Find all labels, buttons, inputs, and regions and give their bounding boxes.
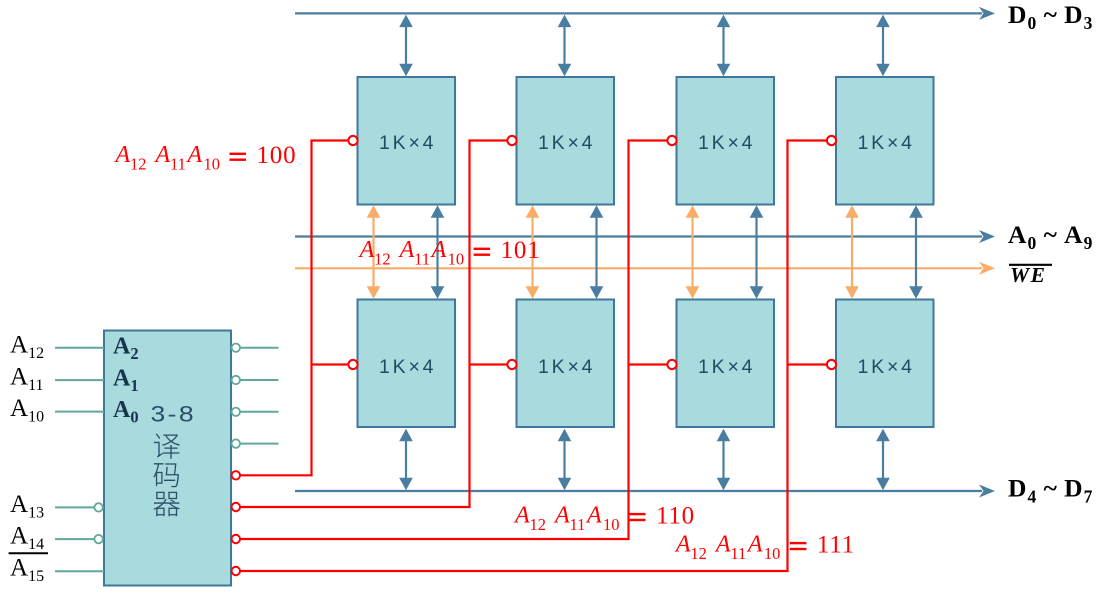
svg-text:WE: WE bbox=[1010, 263, 1046, 287]
svg-text:1K×4: 1K×4 bbox=[858, 356, 915, 378]
svg-text:1K×4: 1K×4 bbox=[858, 132, 915, 154]
svg-text:1K×4: 1K×4 bbox=[538, 132, 595, 154]
svg-text:1K×4: 1K×4 bbox=[379, 356, 436, 378]
svg-text:3-8: 3-8 bbox=[151, 402, 196, 427]
svg-text:A0 ~ A9: A0 ~ A9 bbox=[1008, 220, 1094, 253]
svg-text:1K×4: 1K×4 bbox=[698, 356, 755, 378]
svg-text:1K×4: 1K×4 bbox=[698, 132, 755, 154]
svg-text:1K×4: 1K×4 bbox=[379, 132, 436, 154]
svg-text:D4 ~ D7: D4 ~ D7 bbox=[1008, 473, 1094, 506]
svg-text:1K×4: 1K×4 bbox=[538, 356, 595, 378]
svg-text:D0 ~ D3: D0 ~ D3 bbox=[1008, 0, 1094, 33]
